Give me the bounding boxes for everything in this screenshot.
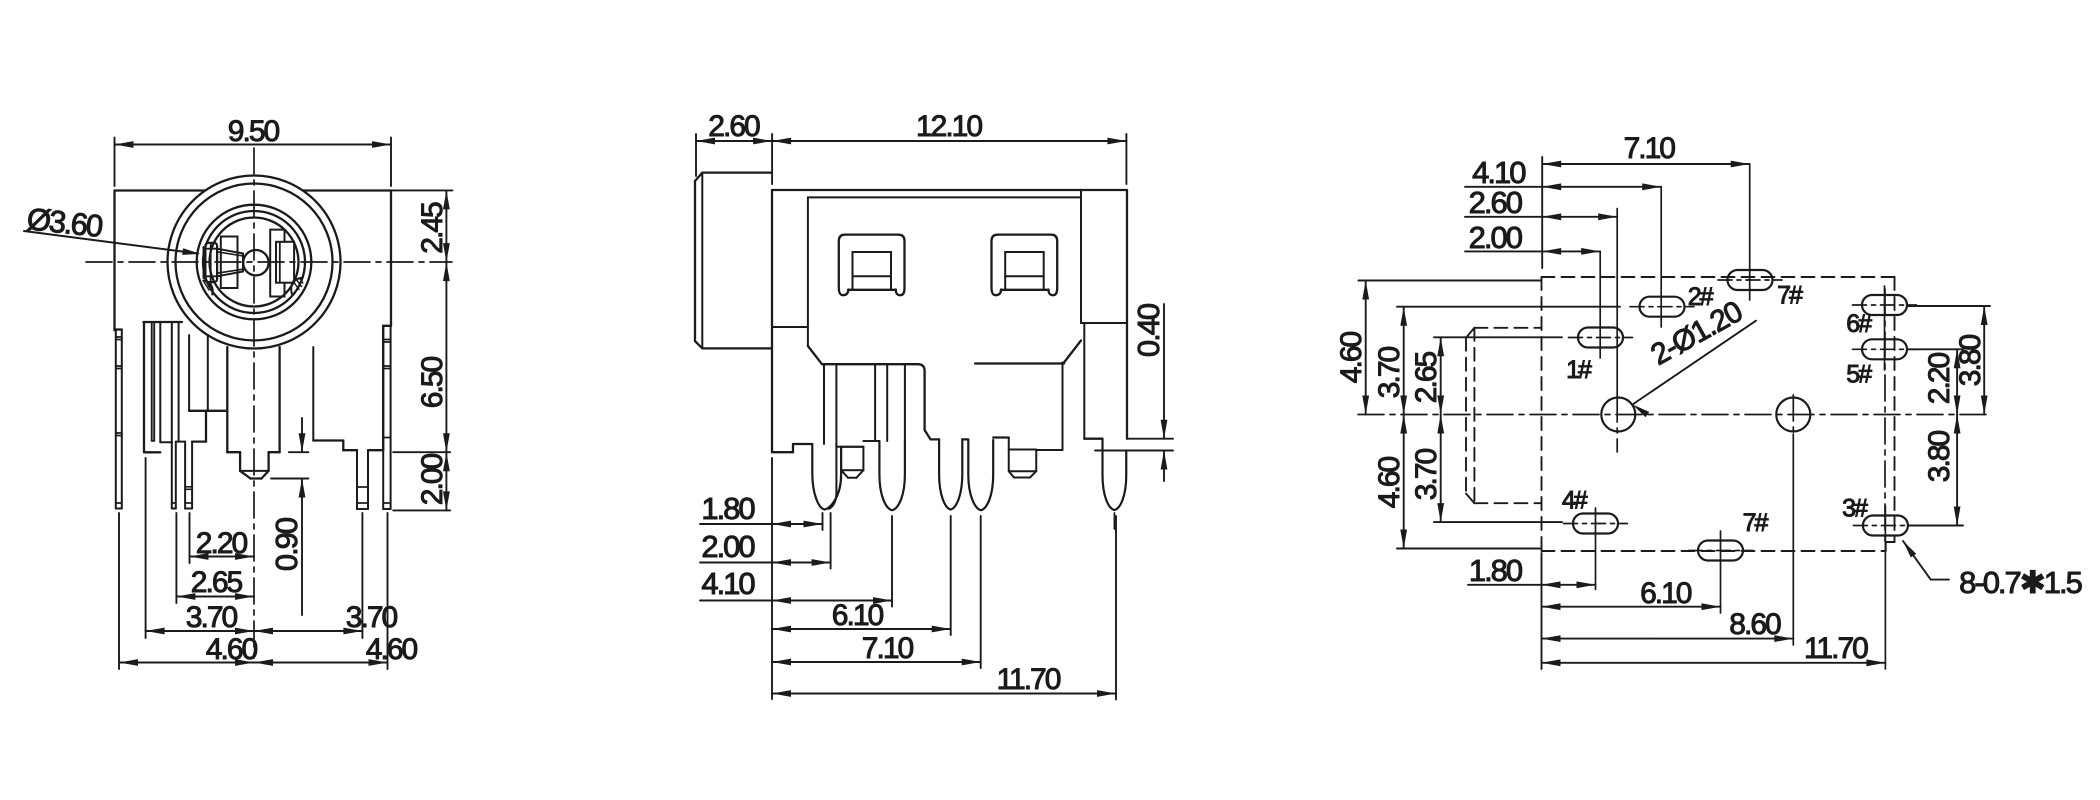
- dim 1.80 pcb: [1468, 584, 1596, 586]
- pin C (front left): [171, 442, 173, 508]
- svg-text:6.10: 6.10: [1640, 577, 1692, 610]
- pad 2#: [1640, 297, 1685, 317]
- svg-text:8.60: 8.60: [1729, 608, 1781, 641]
- svg-text:4.60: 4.60: [366, 633, 418, 666]
- left contact cavity: [221, 237, 238, 289]
- svg-text:6.10: 6.10: [832, 599, 884, 632]
- dim 3.80 right top: [1908, 305, 1990, 307]
- dim 4.60 bottom right: [387, 513, 389, 669]
- lower-right key bump hatched: [291, 278, 303, 294]
- pin E (right outer): [382, 326, 384, 509]
- bottom dims baseline: [771, 458, 773, 699]
- dim 1.80: [822, 513, 824, 530]
- pad 7# top: [1728, 270, 1773, 290]
- dim 2.00 pcb: [1465, 250, 1600, 252]
- right wall: [1126, 190, 1128, 439]
- svg-text:9.50: 9.50: [228, 115, 280, 148]
- dim 2.60 pcb: [1465, 216, 1617, 218]
- dim 2.45 right: [391, 189, 453, 191]
- svg-text:7.10: 7.10: [862, 632, 914, 665]
- svg-text:1.80: 1.80: [701, 491, 755, 526]
- svg-text:12.10: 12.10: [916, 110, 982, 143]
- svg-text:4#: 4#: [1562, 487, 1588, 515]
- body right edge: [390, 191, 392, 326]
- dim 6.10: [950, 516, 952, 635]
- pad 4#: [1573, 514, 1618, 534]
- dim 0.90: [289, 451, 309, 453]
- dim 4.60 bottom left: [118, 513, 120, 669]
- dim 3.70 pcb bottom: [1434, 521, 1562, 523]
- dim 2.00 right: [393, 509, 450, 511]
- right contact cavity: [270, 230, 284, 297]
- centerline horizontal pcb: [1358, 414, 1988, 416]
- svg-text:2.65: 2.65: [1410, 351, 1443, 403]
- pad 3#: [1863, 516, 1908, 536]
- right inner column: [312, 347, 314, 441]
- body left edge: [113, 191, 115, 331]
- dim 9.50 top: [114, 138, 116, 187]
- slot lines above pins: [823, 364, 825, 444]
- svg-text:2.00: 2.00: [1469, 220, 1523, 255]
- dim 2.65 bottom: [175, 513, 177, 603]
- dim 2.65 pcb: [1434, 336, 1562, 338]
- svg-text:2.00: 2.00: [701, 529, 755, 564]
- bottom dims baseline pcb: [1541, 553, 1543, 669]
- shell rim circle: [176, 184, 333, 341]
- body outline top edge: [115, 189, 206, 191]
- center ball contact: [243, 250, 268, 275]
- goose neck: [918, 364, 939, 439]
- left column bottom: [772, 451, 793, 453]
- lower-left key bump hatched: [203, 281, 212, 295]
- svg-text:8-0.7✱1.5: 8-0.7✱1.5: [1959, 565, 2081, 600]
- socket horn: [217, 249, 243, 254]
- pad 6#: [1862, 295, 1907, 315]
- dim 4.10 pcb: [1465, 186, 1661, 188]
- body lower-left edge: [143, 322, 145, 452]
- bottom shelf: [822, 363, 918, 365]
- left socket contact bar: [203, 247, 205, 278]
- svg-text:4.60: 4.60: [1335, 331, 1368, 383]
- centerline horizontal (front view): [86, 261, 452, 263]
- window latch right: [992, 235, 1058, 296]
- svg-text:2.60: 2.60: [1469, 185, 1523, 220]
- svg-text:3.70: 3.70: [346, 601, 398, 634]
- centerline pads right column: [1884, 289, 1886, 542]
- pin 3 middle view: [939, 439, 962, 509]
- dim 2.00: [830, 513, 832, 569]
- shield circle: [197, 205, 312, 320]
- svg-text:0.40: 0.40: [1131, 303, 1166, 357]
- svg-text:4.60: 4.60: [1373, 456, 1406, 508]
- pad 5#: [1862, 339, 1907, 359]
- svg-text:6.50: 6.50: [416, 356, 449, 408]
- svg-text:7#: 7#: [1743, 509, 1769, 537]
- svg-text:2.60: 2.60: [708, 110, 760, 143]
- svg-text:4.60: 4.60: [206, 633, 258, 666]
- dim 7.10 pcb: [1542, 163, 1750, 165]
- body left edge: [771, 190, 773, 452]
- pin 1 middle view: [812, 444, 841, 510]
- strip beside pin C: [178, 322, 180, 442]
- right wall bottom: [1084, 438, 1102, 440]
- pin 2 middle view: [879, 441, 905, 510]
- right contact plate: [276, 242, 294, 283]
- svg-text:3.70: 3.70: [1410, 448, 1443, 500]
- pin 4 middle view: [968, 440, 993, 510]
- mount hole right: [1776, 398, 1810, 432]
- top dims baseline: [1541, 157, 1543, 268]
- dim 2.60 top: [695, 134, 697, 176]
- pcb outline hidden rect: [1541, 277, 1543, 551]
- svg-text:11.70: 11.70: [1804, 632, 1868, 665]
- dim 12.10 top: [1125, 134, 1127, 184]
- svg-text:1.80: 1.80: [1469, 553, 1523, 588]
- insulator circle: [210, 218, 299, 307]
- svg-text:2.20: 2.20: [1923, 352, 1956, 404]
- svg-text:7.10: 7.10: [1624, 132, 1676, 165]
- connector shell outer circle: [168, 176, 341, 349]
- svg-text:0.90: 0.90: [269, 517, 304, 571]
- left inner strip: [151, 322, 153, 441]
- leader 2-dia1.20: [1633, 321, 1757, 405]
- pin F: [356, 450, 358, 509]
- dim 3.70 bottom right: [361, 513, 363, 638]
- dim 4.60 pcb top: [1358, 280, 1541, 282]
- dim 11.70 pcb: [1542, 662, 1886, 664]
- svg-text:11.70: 11.70: [997, 663, 1061, 696]
- dim 4.60 pcb bottom: [1397, 548, 1542, 550]
- svg-text:4.10: 4.10: [701, 566, 755, 601]
- anchor barb right: [1009, 438, 1063, 478]
- central column: [226, 347, 228, 452]
- dim 2.20 bottom: [189, 513, 191, 563]
- left inner column: [159, 322, 161, 442]
- body inner top line: [808, 196, 1081, 198]
- dim 0.40: [1127, 438, 1173, 440]
- shield inner circle: [203, 211, 305, 313]
- pin 5 middle view: [1103, 439, 1127, 510]
- svg-text:2.20: 2.20: [196, 527, 248, 560]
- svg-text:1#: 1#: [1566, 356, 1592, 384]
- svg-text:3.70: 3.70: [186, 601, 238, 634]
- leader 8-0.7x1.5: [1903, 541, 1931, 580]
- center bushing: [239, 452, 241, 471]
- svg-text:3.70: 3.70: [1373, 346, 1406, 398]
- barrel hidden outline: [1465, 338, 1467, 494]
- pad 1#: [1578, 328, 1623, 348]
- svg-text:7#: 7#: [1777, 282, 1803, 310]
- centerline vertical (front view): [253, 148, 255, 662]
- dim 3.70 pcb top: [1397, 306, 1620, 308]
- dim 3.70 bottom left: [145, 458, 147, 638]
- svg-text:2.00: 2.00: [416, 453, 449, 505]
- dim 8.60 pcb: [1542, 638, 1794, 640]
- dim 11.70: [1115, 516, 1117, 700]
- body lower-left step shelf: [144, 321, 183, 323]
- anchor barb left: [841, 447, 863, 470]
- dim 7.10: [980, 516, 982, 668]
- cap barrel side view: [695, 173, 772, 349]
- svg-text:3.80: 3.80: [1923, 430, 1956, 482]
- dim 4.10: [891, 516, 893, 607]
- dim 2.20 right: [1908, 348, 1963, 350]
- dim 6.10 pcb: [1542, 606, 1721, 608]
- svg-text:2.65: 2.65: [191, 566, 243, 599]
- window latch left: [839, 235, 905, 296]
- svg-text:2.45: 2.45: [416, 202, 449, 254]
- left inner step: [772, 326, 808, 328]
- dim 6.50 right: [393, 451, 450, 453]
- pin A (left outer): [115, 328, 122, 330]
- svg-text:6#: 6#: [1846, 310, 1872, 338]
- svg-text:5#: 5#: [1846, 361, 1872, 389]
- pad 7# bottom: [1698, 541, 1743, 561]
- body top edge: [772, 189, 1127, 191]
- centre slot columns: [188, 335, 190, 411]
- mount hole left: [1601, 398, 1635, 432]
- svg-text:3#: 3#: [1842, 495, 1868, 523]
- pin D: [184, 442, 186, 509]
- body lower-right edge: [382, 326, 384, 450]
- dim 3.80 right bottom: [1908, 525, 1963, 527]
